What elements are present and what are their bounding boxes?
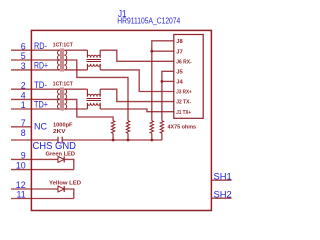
choke CM1 bottom winding leads	[87, 64, 100, 70]
wire CM2 bottom output to jack J1 TX+	[100, 109, 174, 112]
wire pin 7 NC stub	[11, 126, 31, 128]
svg-text:4: 4	[21, 91, 26, 101]
svg-text:J8: J8	[176, 39, 183, 45]
wire riser J5/J4 to resistor R4	[162, 71, 174, 120]
choke CM2 bottom winding leads	[87, 103, 100, 109]
wire pin SH2 shield	[211, 197, 231, 199]
wire CM1 bottom output to jack J3 RX+	[100, 70, 174, 92]
svg-text:J7: J7	[176, 49, 183, 55]
wire resistor R3 to rail	[151, 133, 153, 140]
svg-text:2KV: 2KV	[53, 129, 66, 135]
svg-text:1000pF: 1000pF	[53, 122, 73, 128]
svg-text:J4: J4	[176, 80, 183, 86]
svg-text:4X75 ohms: 4X75 ohms	[168, 124, 197, 130]
transformer T2 primary winding	[58, 89, 60, 109]
wire pin 12 yellow LED anode	[11, 188, 58, 190]
capacitor C1 1000pF 2KV	[58, 137, 62, 144]
svg-text:1: 1	[21, 100, 26, 110]
svg-text:TD+: TD+	[34, 100, 48, 110]
wire T1 center tap to resistor R2	[64, 60, 128, 121]
wire termination rail	[62, 139, 162, 141]
choke CM1 top winding	[87, 55, 100, 57]
svg-text:J5: J5	[176, 69, 183, 75]
wire riser J8/J7 to resistor R3	[152, 41, 174, 121]
svg-text:3: 3	[21, 61, 26, 71]
wire stub jack J7	[152, 50, 174, 52]
resistor R4 75 ohm	[160, 121, 163, 134]
svg-text:J6 RX-: J6 RX-	[176, 59, 192, 65]
svg-text:8: 8	[21, 128, 26, 138]
choke CM1 top winding leads	[87, 50, 100, 57]
svg-text:J3 RX+: J3 RX+	[176, 90, 192, 96]
svg-text:RD+: RD+	[34, 61, 48, 71]
wire stub jack J4	[162, 80, 174, 82]
svg-text:6: 6	[21, 41, 26, 51]
svg-text:10: 10	[16, 161, 26, 171]
wire CM1 top output to jack J6 RX-	[100, 50, 174, 61]
svg-text:J2 TX-: J2 TX-	[176, 100, 191, 106]
junction rail at R1	[112, 139, 115, 142]
svg-text:NC: NC	[34, 122, 47, 132]
transformer T2 core	[61, 88, 63, 111]
svg-text:5: 5	[21, 51, 26, 61]
resistor R2 75 ohm	[126, 121, 129, 134]
svg-text:Green LED: Green LED	[46, 152, 76, 158]
wire pin 11 yellow LED return	[11, 198, 74, 200]
green LED D1 diode	[58, 156, 64, 162]
wire yellow LED D2 cathode loop	[64, 189, 74, 199]
choke CM1 bottom winding	[87, 64, 100, 66]
wire T2 secondary bottom to choke CM2	[64, 108, 87, 110]
wire pin 5 center tap	[11, 59, 60, 61]
transformer T2 secondary winding	[64, 89, 66, 109]
svg-text:J1 TX+: J1 TX+	[176, 110, 191, 116]
RJ45 jack contact box	[174, 35, 203, 119]
svg-text:Yellow LED: Yellow LED	[49, 181, 81, 187]
svg-text:1CT:1CT: 1CT:1CT	[53, 82, 74, 88]
choke CM2 top winding	[87, 94, 100, 96]
wire pin 2 TD-	[11, 88, 60, 90]
wire T2 center tap to resistor R1	[64, 99, 113, 120]
wire T2 secondary top to choke CM2	[64, 88, 87, 90]
wire T1 secondary top to choke CM1	[64, 49, 87, 51]
component body outline U-J1	[31, 30, 211, 210]
junction riser at J4	[161, 80, 164, 83]
svg-text:11: 11	[16, 190, 25, 200]
svg-text:RD-: RD-	[34, 41, 47, 51]
wire T1 secondary bottom to choke CM1	[64, 69, 87, 71]
junction rail at R2	[127, 139, 130, 142]
svg-text:12: 12	[16, 180, 26, 190]
svg-text:1CT:1CT: 1CT:1CT	[53, 42, 74, 48]
wire CM2 top output to jack J2 TX-	[100, 89, 174, 101]
svg-text:SH1: SH1	[214, 171, 232, 182]
wire pin 1 TD+	[11, 108, 60, 110]
junction riser at J7	[150, 50, 153, 53]
wire pin 3 RD+	[11, 69, 60, 71]
choke CM2 bottom winding	[87, 103, 100, 105]
svg-text:SH2: SH2	[214, 189, 232, 200]
wire green LED D1 cathode loop	[64, 159, 74, 169]
wire pin 9 green LED anode	[11, 158, 58, 160]
resistor R1 75 ohm	[111, 121, 114, 134]
wire pin 8 chassis ground	[11, 139, 58, 141]
junction rail at R3	[150, 139, 153, 142]
wire pin 4 center tap	[11, 98, 60, 100]
wire resistor R4 to rail	[161, 133, 163, 140]
svg-text:TD-: TD-	[34, 80, 47, 90]
svg-text:CHS GND: CHS GND	[33, 141, 77, 152]
transformer T1 secondary winding	[64, 50, 66, 70]
resistor R3 75 ohm	[150, 121, 153, 134]
transformer T1 primary winding	[57, 50, 59, 70]
transformer T1 core	[61, 49, 63, 72]
wire pin SH1 shield	[211, 179, 231, 181]
svg-text:2: 2	[21, 80, 26, 90]
svg-text:9: 9	[21, 151, 26, 161]
choke CM2 core	[87, 99, 101, 101]
wire pin 10 green LED return	[11, 169, 74, 171]
choke CM2 top winding leads	[87, 89, 100, 96]
wire pin 6 RD-	[11, 49, 60, 51]
svg-text:7: 7	[21, 118, 26, 128]
wire resistor R2 to rail	[127, 133, 129, 140]
choke CM1 core	[87, 60, 101, 62]
svg-text:HR911105A_C12074: HR911105A_C12074	[117, 16, 180, 26]
yellow LED D2 diode	[58, 186, 64, 192]
wire resistor R1 to rail	[112, 133, 114, 140]
